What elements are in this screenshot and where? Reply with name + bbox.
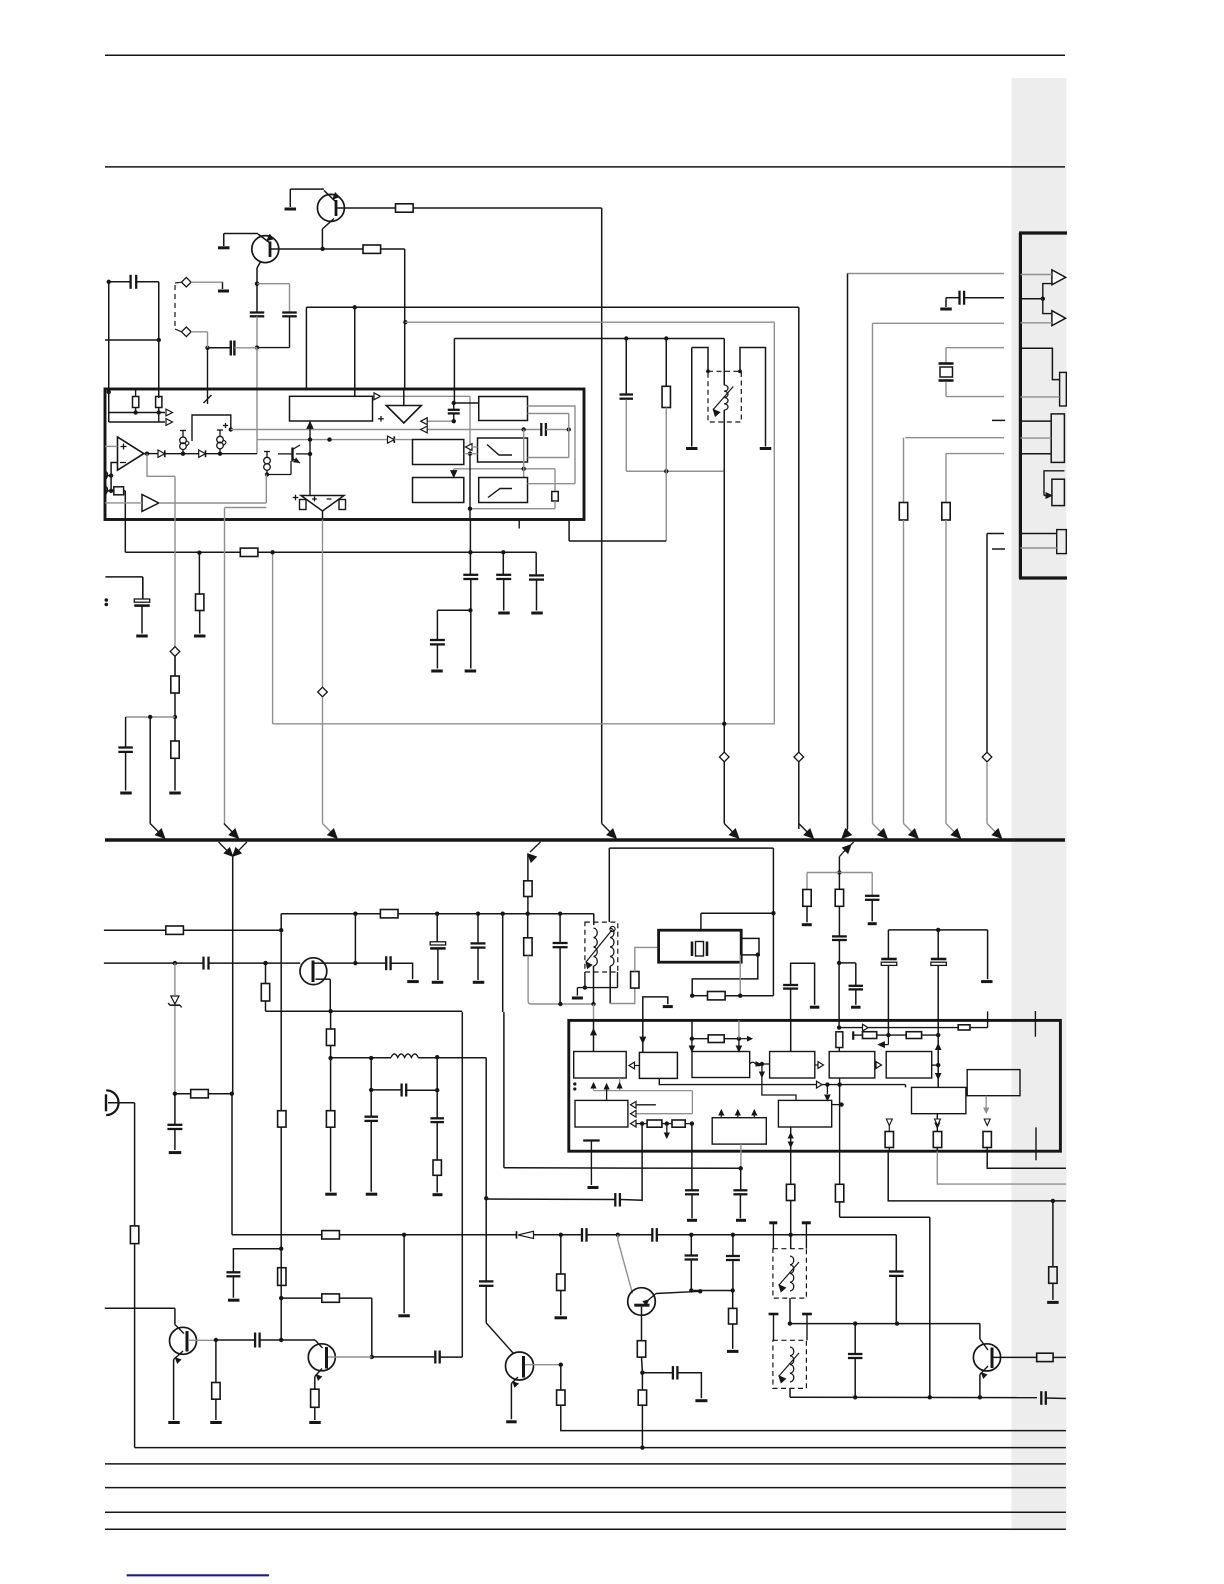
node x158-y340	[157, 338, 161, 342]
wire C-t6 down	[732, 1260, 734, 1291]
wire x207 down to IC1 NC	[207, 348, 209, 404]
resistor R-b13	[638, 1390, 646, 1405]
arrow y1084	[817, 1081, 823, 1088]
wire Q1 upper to stub	[290, 188, 324, 190]
wire x896 upper	[895, 1235, 897, 1271]
resistor R-t3	[729, 1308, 737, 1324]
wire A-E	[606, 1086, 608, 1100]
buffer A3	[142, 495, 159, 512]
wire x371 drop	[371, 1298, 373, 1357]
wire x355 drop	[354, 914, 356, 963]
arrow x938 up	[936, 1044, 941, 1049]
wire x601 vertical	[601, 208, 603, 824]
wire q4 base	[174, 1308, 176, 1324]
resistor R-q1	[396, 204, 414, 212]
wire x150 to bus	[149, 717, 151, 824]
wire x175 lower	[174, 657, 176, 677]
transistor Q6 circle	[628, 1288, 656, 1316]
node x692 y1038	[690, 1037, 694, 1041]
wire Q2 collector down	[256, 268, 258, 284]
node pin2	[109, 489, 113, 493]
resistor R-u1c	[114, 487, 124, 495]
bus arrow x601	[602, 824, 614, 836]
wire T1 right b	[528, 413, 569, 415]
arrow into M3	[453, 469, 455, 472]
wire x272 riser	[272, 552, 274, 724]
resistor R-s1	[166, 926, 184, 934]
arrow E in1	[631, 1101, 637, 1108]
node pin1	[109, 473, 113, 477]
transformer T1 coil L	[594, 928, 598, 938]
diode D2	[199, 450, 206, 457]
inductor L1 arrow	[713, 387, 733, 410]
node rowB a	[886, 1033, 890, 1037]
ground L2 right	[802, 1221, 811, 1224]
ground R-s6	[325, 1193, 337, 1196]
Q8 emitter	[980, 1366, 988, 1375]
arrow x692 into C	[691, 1039, 693, 1046]
wire y930	[104, 929, 166, 931]
node x175 y717	[173, 715, 177, 719]
transistor Q6 bar	[634, 1304, 649, 1307]
node x692 y995	[690, 994, 694, 998]
diode D3	[388, 436, 395, 443]
block rect M3	[413, 478, 464, 503]
node y1298	[279, 1296, 283, 1300]
node y1290 c	[731, 1288, 735, 1292]
ground R-r1	[802, 923, 812, 926]
wire C-s2 gnd	[477, 948, 479, 980]
ground T1	[572, 997, 583, 1000]
diamond x798	[794, 752, 804, 762]
wire rect loop	[192, 415, 231, 441]
wire A1 out	[144, 453, 158, 455]
coil pair 1	[180, 437, 187, 444]
U2 block A	[574, 1052, 627, 1079]
U2 block D3	[886, 1052, 932, 1079]
bus arrow x987	[987, 824, 999, 836]
node y1200	[1051, 1199, 1055, 1203]
capacitor C-t3	[581, 1228, 583, 1242]
node q2col	[255, 282, 259, 286]
wire q3 emitter down	[329, 979, 331, 1011]
node x207	[205, 346, 209, 350]
resistor R-b8	[311, 1389, 319, 1407]
capacitor C-s5	[385, 956, 387, 970]
dashed box T1	[585, 922, 618, 972]
arrow D2 out	[876, 1062, 882, 1069]
wire q4-q5	[216, 1339, 255, 1341]
node y1290 b	[698, 1289, 702, 1293]
wire C-s6 gnd	[370, 1121, 372, 1192]
pin U2 x593	[593, 1020, 595, 1051]
wire R-f1 up	[635, 947, 659, 971]
resistor R-b10	[557, 1390, 565, 1405]
wire C-m3 gnd	[436, 644, 438, 668]
capacitor C-r5 pol	[881, 958, 897, 961]
arrow A-B	[629, 1062, 635, 1069]
arrow rowA	[863, 1024, 869, 1031]
right page-edge gray band	[1012, 78, 1067, 1531]
wire J1 loop	[1044, 471, 1064, 496]
diamond x724	[719, 752, 729, 762]
wire y1308	[105, 1307, 175, 1309]
jack J2	[106, 1090, 118, 1115]
ind T right	[740, 348, 766, 447]
node y1200 drop	[1052, 1201, 1054, 1267]
capacitor C-t8	[889, 1270, 904, 1272]
node E r1	[640, 1121, 644, 1125]
wire x207 up	[207, 332, 209, 348]
resistor R-b1	[524, 881, 532, 897]
transistor Q3 emitter	[316, 978, 331, 980]
transistor Q2 circle	[252, 236, 279, 263]
capacitor C-m1	[620, 393, 634, 395]
arrow M2-M1	[466, 444, 473, 451]
wire T1 stubR	[617, 972, 619, 988]
node loop	[229, 427, 233, 431]
plus pd	[312, 498, 317, 500]
wire pin u1 bottom	[568, 520, 570, 542]
wire C-r6 pin	[937, 965, 939, 1087]
resistor R-s9	[130, 1226, 138, 1244]
wire x798 drop	[798, 307, 800, 752]
node cap-bottom	[255, 345, 259, 349]
wire R-u1d down	[554, 501, 556, 509]
node q7 out	[559, 1363, 563, 1367]
squiggle C out	[750, 1062, 762, 1066]
wire x265 stem	[265, 963, 267, 983]
wire y552	[125, 551, 240, 553]
wire x306 drop	[305, 307, 307, 389]
resistor R-b3	[278, 1111, 286, 1127]
block J1-r3	[1052, 479, 1065, 505]
node y1397 c	[978, 1395, 982, 1399]
node R-u1b	[157, 410, 161, 414]
diamond x175	[170, 647, 180, 657]
bus arrow x798	[799, 824, 811, 836]
wire C-b12 corner	[677, 1373, 701, 1398]
capacitor C-r3	[849, 985, 864, 987]
wire y471 gray	[626, 470, 724, 472]
node E r3	[690, 1121, 694, 1125]
capacitor C-b9	[434, 1351, 436, 1364]
node y338 b	[664, 336, 668, 340]
resistor R-u1b	[156, 397, 162, 408]
wire x134 drop	[134, 1103, 136, 1226]
wire y913b	[701, 912, 774, 914]
node y723	[722, 722, 726, 726]
wire C-b9 right	[440, 1356, 463, 1358]
wire x125 stem2	[125, 717, 127, 748]
wire x790 stem	[790, 1235, 792, 1249]
capacitor C-b7	[254, 1333, 256, 1348]
wire B out	[659, 1078, 905, 1084]
node y872	[837, 870, 841, 874]
node d1	[181, 452, 185, 456]
resistor R-b6	[212, 1383, 220, 1400]
wire R-m1 down	[665, 408, 667, 472]
wire D2 bot stem	[839, 1078, 841, 1085]
wire y1058	[331, 1057, 391, 1059]
node d2	[218, 452, 222, 456]
wire x199 stem	[198, 553, 200, 594]
wire x142 stem	[142, 577, 144, 599]
wire C-t2 down	[485, 1286, 487, 1323]
wire y439 gray	[257, 439, 388, 441]
stem C-u2	[453, 403, 455, 410]
stub x1036 bottom	[1035, 1127, 1037, 1160]
transformer T1 coil R	[610, 928, 614, 938]
pin mark 2	[106, 487, 108, 495]
Q4 collector	[189, 1339, 216, 1341]
wire x266 up	[265, 475, 267, 504]
wire T1R down	[609, 966, 611, 1004]
node F y1168	[739, 1166, 743, 1170]
ground x404	[398, 1314, 410, 1317]
zener D-z1	[171, 996, 179, 1004]
wire q7 base diag	[486, 1323, 513, 1354]
wire C-a stem	[256, 284, 258, 313]
node rowB b	[936, 1033, 940, 1037]
transistor Q1 base bar	[335, 200, 338, 216]
phase det trapezoid	[301, 496, 344, 512]
node cap453 top	[452, 401, 456, 405]
F arrows	[720, 1111, 722, 1118]
wire x666 to y541	[665, 471, 667, 541]
wire T1 gnd link	[577, 987, 617, 989]
wire U1 tl step	[108, 392, 110, 422]
wire R-t5 tail	[1053, 1356, 1066, 1358]
bar C-u3	[687, 1219, 697, 1222]
wire J1 pin3	[1020, 322, 1052, 324]
capacitor C-u4	[733, 1189, 747, 1191]
wire x872 stem	[871, 873, 873, 896]
transistor Q3 bar	[312, 961, 315, 983]
wire C-D link	[762, 1063, 770, 1065]
wire x987 drop	[986, 534, 988, 753]
capacitor C-s1 pol	[430, 942, 446, 945]
wire x724 tail	[723, 762, 725, 824]
capacitor C-s3	[553, 942, 568, 944]
node T1 gnd	[583, 985, 587, 989]
wire x903 upper	[903, 438, 905, 503]
wire D3 right	[394, 439, 412, 441]
wire x937 below	[937, 1151, 1066, 1184]
node y429 b	[567, 427, 571, 431]
Q4 emitter gnd	[173, 1360, 175, 1421]
node y1084 b	[837, 1082, 841, 1086]
inductor L2 arrow	[779, 1262, 799, 1285]
node tab	[756, 953, 760, 957]
wire x175 upper	[174, 476, 176, 519]
ground C-b2	[228, 1299, 240, 1302]
wire node to R-q2	[323, 248, 364, 250]
pin U2 x790	[790, 1020, 792, 1051]
wire x470 caps	[469, 552, 471, 574]
wire x437 chain	[436, 914, 438, 942]
wire x691 stem	[690, 1235, 692, 1255]
wire rowA right	[970, 1027, 988, 1029]
dashed link	[174, 285, 176, 329]
transistor Q5 bar	[325, 1347, 328, 1369]
ground C-l1	[136, 635, 148, 638]
wire y610 left	[437, 609, 470, 611]
wire rowA	[838, 1020, 840, 1027]
wire x807 stem	[806, 873, 808, 890]
node y1198	[484, 1196, 488, 1200]
wire x555 seg	[554, 469, 556, 492]
plus loop	[223, 425, 228, 427]
ground Q7	[506, 1420, 517, 1423]
arrow x642 down	[640, 1037, 645, 1043]
wire Q2 base left	[224, 233, 258, 235]
resistor R-t7	[835, 1184, 843, 1202]
wire x724 to diamond	[723, 471, 725, 752]
U2 block Dr	[770, 1052, 815, 1079]
U2 block D2	[829, 1052, 875, 1079]
wire y995	[692, 995, 707, 997]
wire U1-Q out	[296, 453, 310, 455]
capacitor C-b2	[226, 1271, 240, 1273]
block rect M1	[413, 440, 464, 465]
wire frame left	[608, 848, 610, 922]
node x405-y322	[403, 320, 407, 324]
wire to q5	[281, 1339, 315, 1341]
wire Q1 to Q2 emitter node	[321, 229, 323, 249]
pin mark 1	[106, 472, 108, 480]
capacitor C-r2	[832, 935, 847, 937]
coil pair 3	[264, 457, 271, 464]
node A1 out	[145, 452, 149, 456]
transistor Q2 collector lead	[257, 261, 261, 268]
wire C-r4 pin	[790, 989, 792, 1021]
node y439 b	[327, 437, 331, 441]
ground C-r1	[868, 922, 877, 925]
wire x798 tail	[798, 762, 800, 829]
wire x281 riser	[280, 914, 282, 931]
bus arrow x150	[150, 824, 162, 836]
ground C-b12	[695, 1399, 707, 1402]
wire tab stem	[739, 955, 741, 996]
wire x642 corner	[641, 1200, 644, 1202]
node x938 y1064	[936, 1063, 940, 1067]
wire A1 fb	[147, 454, 175, 477]
node x740 y995	[738, 994, 742, 998]
wire C-s9 gnd	[174, 1129, 176, 1150]
node y471	[664, 469, 668, 473]
wire x839 mid	[838, 873, 840, 890]
wire J1 pin6	[1020, 420, 1051, 422]
connector J1 outline	[1019, 233, 1022, 578]
wire y717	[126, 716, 175, 718]
resistor R-f1	[631, 972, 639, 989]
ground R-s7	[433, 1193, 443, 1196]
wire y913	[281, 913, 380, 915]
wire A1 +in	[105, 445, 118, 447]
ground C-s5	[407, 980, 419, 983]
node E r2	[665, 1121, 669, 1125]
Q6 collector stem	[641, 1307, 643, 1341]
wire y962 right	[839, 962, 856, 964]
capacitor C-r6 pol	[931, 958, 947, 961]
wire Q1 emitter right	[336, 207, 396, 209]
wire loop top	[257, 283, 290, 285]
wire y723 gray	[273, 723, 775, 725]
ground C-m3	[431, 670, 443, 673]
ind T right bar	[760, 447, 772, 450]
wire R-r2 down	[838, 906, 840, 936]
node y913 d	[526, 912, 530, 916]
wire T1 right a	[528, 406, 576, 484]
ind T left bar	[686, 447, 698, 450]
wire y437	[905, 437, 1004, 439]
wire x125 down	[124, 491, 126, 553]
wire x872 drop	[872, 323, 874, 823]
capacitor C-t7	[848, 1353, 863, 1355]
wire y577	[105, 576, 142, 578]
wire C down path	[762, 1064, 796, 1100]
Q5 emitter	[315, 1369, 322, 1377]
IC U1 outline	[105, 389, 584, 520]
capacitor C-t6	[726, 1255, 740, 1257]
node y1234 d	[731, 1233, 735, 1237]
arrow E in3	[631, 1120, 637, 1127]
arrow rowB hook	[887, 1035, 889, 1045]
wire x405 vertical	[404, 249, 406, 389]
wire bigrect gray	[381, 395, 471, 397]
node q4 out	[214, 1338, 218, 1342]
wire y1168 right	[987, 1148, 1066, 1169]
wire A out gray	[619, 1078, 621, 1091]
resistor R-s2	[380, 910, 398, 918]
capacitor C-m4	[496, 574, 511, 576]
bus arrow x322	[323, 824, 335, 836]
wire x839 diag tail	[839, 853, 843, 857]
wire J1 pin1	[1020, 274, 1052, 276]
transistor Q4 bar	[186, 1331, 189, 1352]
filter FL1 tab	[741, 938, 759, 955]
wire x839 pin	[838, 963, 840, 1021]
transistor Q3 circle	[300, 958, 327, 985]
transistor Q8 bar	[991, 1348, 994, 1369]
wire x462 drop	[461, 1012, 463, 1357]
wire J1 pin2	[1020, 298, 1042, 300]
crystal X1 bottom	[945, 382, 947, 397]
wire x946 upper	[945, 454, 947, 503]
capacitor C-s9	[167, 1124, 182, 1126]
arrow on drop	[760, 1072, 765, 1077]
node y963 b	[263, 961, 267, 965]
resistor R-b11	[637, 1341, 645, 1357]
wire x568 seg	[568, 414, 570, 458]
wire x839 stem	[838, 857, 840, 873]
top rule 2	[105, 166, 1065, 168]
wire R-s4 down	[265, 1001, 267, 1011]
arrow y421	[421, 418, 428, 425]
resistor R-pd1	[300, 500, 307, 510]
arrow x310 up	[307, 422, 313, 428]
ind T left stem	[691, 348, 693, 447]
transistor Q5 circle	[308, 1344, 335, 1371]
wire H entry	[905, 1085, 907, 1088]
transistor U1-Q base wire	[278, 453, 293, 455]
capacitor C-u1	[540, 423, 542, 436]
node J1	[1041, 297, 1045, 301]
node y1084 a	[825, 1082, 829, 1086]
capacitor C-s6	[364, 1116, 378, 1118]
capacitor C-t9	[1040, 1391, 1042, 1405]
